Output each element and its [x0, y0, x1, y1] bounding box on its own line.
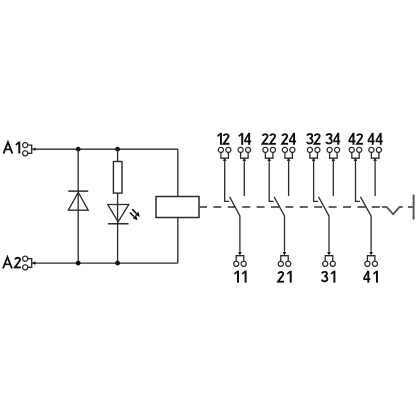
NO contact 34 — [332, 158, 334, 196]
wire A2 bottom rail — [32, 262, 178, 264]
label A2 — [3, 257, 12, 268]
label 11 — [235, 271, 238, 283]
terminal 21 — [278, 252, 291, 266]
wire A1 top rail — [32, 148, 178, 150]
contact arm 1 (common 11) — [230, 197, 240, 252]
label 44 — [368, 133, 375, 145]
armature bar — [413, 195, 415, 220]
NO contact 24 — [288, 158, 290, 196]
terminal A1 — [23, 143, 36, 156]
label 32 — [307, 134, 313, 143]
terminal 14 — [238, 147, 251, 161]
terminal 32 — [307, 147, 320, 161]
test-lever V notch — [382, 207, 413, 214]
LED — [108, 205, 129, 224]
junction bottom diode branch — [76, 261, 81, 266]
terminal 42 — [349, 147, 362, 161]
NC contact 22 — [269, 158, 274, 201]
terminal 44 — [369, 147, 382, 161]
terminal 11 — [234, 252, 247, 266]
junction top diode branch — [76, 147, 81, 152]
label 34 — [326, 134, 332, 143]
NO contact 44 — [374, 158, 376, 196]
NC contact 42 — [356, 158, 361, 201]
label 42 — [348, 133, 355, 145]
wire diode branch — [77, 149, 79, 263]
junction top LED branch — [115, 147, 120, 152]
contact arm 2 (common 21) — [274, 197, 284, 252]
terminal A2 — [23, 256, 36, 270]
terminal 22 — [263, 147, 276, 161]
contact arm 3 (common 31) — [319, 197, 330, 252]
label 12 — [218, 133, 221, 145]
label 14 — [239, 133, 242, 145]
NO contact 14 — [243, 158, 245, 196]
label A1 — [4, 142, 13, 153]
label 24 — [282, 134, 288, 144]
terminal 41 — [365, 252, 378, 266]
relay coil — [156, 197, 199, 218]
wire coil branch — [177, 149, 179, 263]
suppression diode — [68, 191, 88, 210]
resistor — [113, 162, 122, 194]
NC contact 32 — [314, 158, 319, 201]
NC contact 12 — [225, 158, 230, 201]
mechanical linkage (dashed) — [199, 206, 380, 208]
label 31 — [322, 272, 328, 281]
terminal 34 — [327, 147, 340, 161]
label 41 — [363, 271, 370, 283]
contact arm 4 (common 41) — [360, 197, 371, 252]
junction bottom LED branch — [115, 261, 120, 266]
terminal 12 — [218, 147, 231, 161]
terminal 31 — [323, 252, 336, 266]
label 21 — [278, 272, 284, 282]
terminal 24 — [282, 147, 295, 161]
LED emission arrows — [130, 209, 140, 220]
wire LED branch — [117, 149, 119, 263]
label 22 — [262, 134, 268, 144]
